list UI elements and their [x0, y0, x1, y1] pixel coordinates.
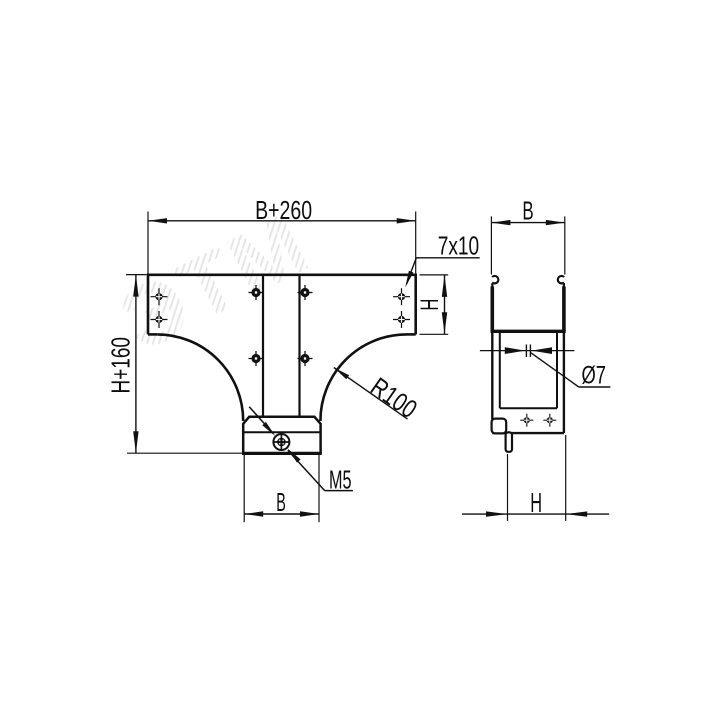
right rolled hook — [558, 276, 564, 290]
dimension B below clamp — [244, 455, 319, 522]
inner walls — [500, 333, 557, 408]
stem bolt B1 — [249, 285, 264, 300]
svg-text:H: H — [416, 299, 444, 311]
corner clamp tab — [492, 419, 507, 434]
flange hole A4 — [393, 311, 410, 328]
screw M5 symbol — [273, 434, 289, 450]
right view hole C2 — [543, 414, 556, 427]
left view: top bar outline — [148, 275, 416, 335]
svg-text:Ø7: Ø7 — [582, 361, 607, 389]
flange hole A3 — [393, 288, 410, 305]
stem line left — [262, 276, 264, 416]
svg-text:B: B — [522, 195, 533, 225]
stem line right — [298, 276, 300, 416]
svg-text:B: B — [276, 489, 286, 517]
flange hole A2 — [151, 311, 168, 328]
dimension B+260 — [148, 212, 416, 274]
right fillet R100 — [320, 334, 406, 421]
left fillet R100 — [157, 334, 243, 421]
M5 leader — [249, 407, 353, 491]
clamp box — [242, 417, 321, 454]
left rolled hook — [492, 276, 498, 290]
dimension H (bottom right view) — [462, 435, 609, 521]
channel side wall left — [490, 287, 494, 332]
stem bolt B3 — [249, 351, 264, 366]
svg-text:H+160: H+160 — [106, 337, 136, 394]
label R100 with leader — [334, 368, 408, 420]
dimension H+160 — [126, 275, 242, 454]
stem bolt B4 — [298, 351, 313, 366]
svg-text:7x10: 7x10 — [438, 231, 480, 261]
channel bottom — [491, 330, 566, 333]
dimension Ø7 — [480, 345, 611, 388]
svg-text:R100: R100 — [365, 371, 422, 424]
dimension B (right view) — [491, 216, 564, 274]
hanging tab — [506, 432, 512, 451]
svg-text:M5: M5 — [329, 464, 352, 494]
channel side wall right — [562, 287, 566, 332]
flange hole A1 — [151, 288, 168, 305]
watermark — [106, 194, 325, 370]
lower box outline — [492, 333, 564, 433]
dimension H (right of bar) — [420, 275, 449, 334]
svg-text:B+260: B+260 — [255, 195, 312, 225]
right view hole C1 — [520, 414, 533, 427]
svg-text:H: H — [530, 487, 542, 518]
stem bolt B2 — [298, 285, 313, 300]
